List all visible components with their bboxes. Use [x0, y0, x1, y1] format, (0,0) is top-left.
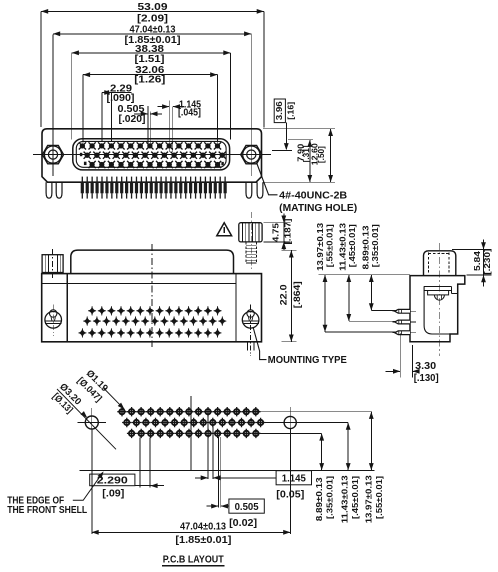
rear pin field row 1 (14): [88, 306, 222, 315]
svg-text:[0.05]: [0.05]: [276, 490, 304, 501]
svg-text:[.230]: [.230]: [482, 249, 492, 275]
svg-text:[.130]: [.130]: [414, 373, 439, 384]
loose jack screw head: [239, 223, 262, 242]
loose screw centerline: [251, 212, 253, 269]
dim 8.89 (side): [370, 275, 372, 311]
right mounting hex nut: [241, 145, 262, 163]
screw tip ticks below body: [247, 342, 249, 351]
front socket contacts row 3 (14 pins): [89, 161, 222, 168]
side view shell lip inner lines: [424, 285, 451, 287]
svg-text:[.45±0.01]: [.45±0.01]: [350, 476, 360, 519]
diameter callout 1.19: [103, 388, 125, 410]
dim 1.145 boxed: [276, 471, 311, 485]
rear view inner vertical lines: [66, 274, 68, 342]
svg-text:2.290: 2.290: [97, 475, 128, 486]
svg-text:[1.51]: [1.51]: [135, 54, 165, 65]
rear view vertical centerline: [151, 244, 153, 347]
bracket board-lock legs: [46, 182, 52, 198]
dim 0.505 boxed: [229, 499, 264, 513]
side view top extension line: [319, 274, 411, 276]
rear pin field row 2 (15): [83, 316, 226, 325]
D-shell inner outline: [76, 141, 226, 167]
svg-text:[.50]: [.50]: [317, 146, 326, 163]
svg-text:[.16]: [.16]: [287, 102, 296, 120]
pcb pads row 1 (15): [117, 407, 260, 416]
comb of bent PCB pins under front view: [81, 177, 227, 199]
rear view horizontal rim line: [42, 283, 236, 285]
svg-text:[2.09]: [2.09]: [137, 14, 168, 25]
mounting type leader and label: [253, 328, 266, 360]
loose jack screw threaded shank (hidden): [245, 242, 247, 263]
svg-text:3.30: 3.30: [415, 361, 436, 372]
edge of front shell reference line: [80, 469, 375, 471]
side view insulator block and contact dimple: [428, 291, 449, 295]
right hex vertical crosshair / 47.04 extension: [250, 35, 252, 177]
svg-text:8.89±0.13: 8.89±0.13: [360, 225, 370, 269]
dim 13.97 (side): [324, 275, 326, 332]
diameter callout 3.20: [57, 389, 116, 449]
dim 2.290 boxed: [90, 474, 135, 486]
warning triangle symbol: [217, 223, 232, 236]
front view horizontal centerline: [33, 154, 271, 156]
side view hood bump: [424, 251, 456, 276]
side view body outline: [410, 276, 465, 342]
svg-text:[.864]: [.864]: [292, 281, 302, 308]
svg-text:0.505: 0.505: [235, 502, 259, 513]
dim 7.90: [288, 139, 313, 141]
svg-text:[.55±0.01]: [.55±0.01]: [374, 476, 384, 519]
pcb hole extension verticals: [91, 430, 93, 535]
dim 5.84: [452, 248, 492, 250]
rear mounting screw right: [242, 305, 259, 357]
svg-text:[.187]: [.187]: [284, 218, 293, 244]
rear view hood: [71, 250, 234, 274]
dim 3.30: [399, 333, 401, 377]
svg-text:[1.26]: [1.26]: [134, 75, 165, 86]
left jack screw post (installed): [42, 255, 63, 273]
svg-text:4#-40UNC-2B: 4#-40UNC-2B: [279, 191, 347, 202]
svg-text:[.55±0.01]: [.55±0.01]: [324, 224, 334, 267]
pcb right mounting hole: [284, 416, 296, 428]
pcb view centerline: [190, 396, 192, 470]
svg-text:[.35±0.01]: [.35±0.01]: [325, 476, 335, 519]
dim 8.89 pcb: [321, 433, 323, 470]
side view threaded hole (hidden): [428, 253, 430, 275]
svg-text:THE FRONT SHELL: THE FRONT SHELL: [7, 505, 87, 516]
svg-text:11.43±0.13: 11.43±0.13: [340, 475, 350, 523]
rear pin field row 3 (15): [78, 328, 221, 337]
svg-text:3.96: 3.96: [275, 101, 284, 121]
dim 11.43 (side): [348, 275, 350, 321]
callout 4#-40UNC-2B (mating hole): [257, 163, 278, 195]
svg-text:5.84: 5.84: [472, 251, 482, 271]
svg-text:P.C.B LAYOUT: P.C.B LAYOUT: [163, 555, 225, 566]
dim 11.43 pcb: [347, 423, 349, 471]
dim 3.96 boxed: [274, 99, 285, 123]
front socket contacts row 1 (15 pins): [79, 142, 221, 149]
pcb pads row 2 (15): [122, 418, 265, 427]
svg-text:1.145: 1.145: [282, 474, 306, 485]
pcb left mounting hole: [85, 416, 98, 429]
svg-text:22.0: 22.0: [279, 284, 289, 305]
left hex vertical crosshair / 47.04 extension: [52, 35, 54, 177]
svg-text:MOUNTING TYPE: MOUNTING TYPE: [268, 355, 347, 366]
dim 22.0: [282, 249, 297, 251]
side view centerline: [439, 243, 441, 356]
dim 13.97 pcb: [370, 412, 372, 471]
rear view body outline: [42, 274, 262, 342]
front view flange plate: [42, 129, 262, 182]
svg-text:13.97±0.13: 13.97±0.13: [364, 475, 374, 523]
svg-text:[.09]: [.09]: [102, 489, 124, 500]
svg-text:[.045]: [.045]: [178, 107, 201, 118]
svg-text:[.45±0.01]: [.45±0.01]: [347, 224, 357, 267]
svg-text:[.090]: [.090]: [107, 93, 135, 104]
rear mounting screw left: [45, 305, 62, 337]
svg-text:[1.85±0.01]: [1.85±0.01]: [175, 535, 231, 546]
svg-text:47.04±0.13: 47.04±0.13: [180, 522, 226, 533]
D-shell outer outline: [73, 139, 230, 170]
svg-text:[.35±0.01]: [.35±0.01]: [370, 224, 380, 267]
dim 4.75: [264, 222, 291, 224]
svg-text:(MATING HOLE): (MATING HOLE): [279, 203, 357, 214]
pcb row extension lines: [259, 411, 372, 413]
svg-text:[0.02]: [0.02]: [229, 518, 257, 529]
svg-text:11.43±0.13: 11.43±0.13: [338, 223, 348, 271]
left mounting hex nut: [42, 145, 63, 163]
front socket contacts row 2 (15 pins): [84, 152, 226, 159]
side view pins: [393, 310, 417, 312]
tiny pin number marks: [80, 153, 224, 165]
svg-text:8.89±0.13: 8.89±0.13: [314, 477, 324, 521]
svg-text:4.75: 4.75: [271, 223, 280, 243]
pcb pads row 3 (14): [127, 429, 261, 438]
dim 12.60: [263, 128, 335, 130]
